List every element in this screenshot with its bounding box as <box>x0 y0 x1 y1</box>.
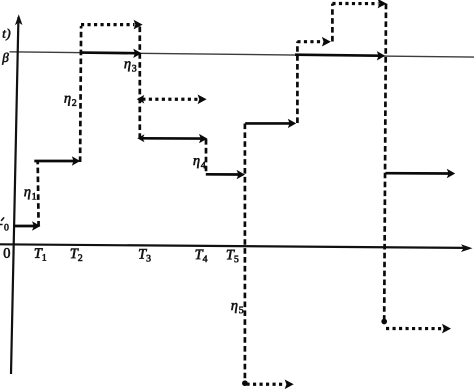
solid segment S3 reflected at beta <box>81 51 135 54</box>
y-axis arrowhead <box>15 14 23 25</box>
solid segment S4 after T3 (double headed) <box>137 134 144 142</box>
label eta3 <box>124 61 136 71</box>
dashed upward jump eta2 at T2 <box>80 26 81 162</box>
label T2 <box>71 249 82 261</box>
dashed downward jump eta4 at T4 <box>205 139 208 174</box>
solid segment S6 after T5 <box>245 122 290 125</box>
x-axis arrowhead <box>461 244 473 252</box>
dotted free path after ruin at T5 <box>247 383 286 386</box>
dotted free path top right after T7 <box>332 2 378 5</box>
beta barrier horizontal line <box>10 52 474 57</box>
label T1 <box>35 248 46 260</box>
dashed downward jump eta3 at T3 <box>138 27 141 139</box>
label T4 <box>196 250 208 262</box>
solid segment S5 after T4 <box>206 173 239 176</box>
solid segment S8 after T8 <box>386 172 450 175</box>
label eta2 <box>64 96 76 106</box>
label T3 <box>139 249 151 261</box>
label eta5 <box>231 303 243 313</box>
y-axis <box>11 17 18 374</box>
dashed upward jump eta1 at T1 <box>36 161 40 227</box>
label 0 at origin <box>4 248 10 258</box>
dashed upward jump at T6 <box>296 42 299 124</box>
label beta <box>2 53 9 65</box>
dotted free path after T3 (double headed) <box>137 95 145 104</box>
label x0 subscript 0 (cropped label) <box>4 224 8 231</box>
dotted free path above beta after T6 <box>297 40 323 43</box>
label eta1 <box>24 189 36 199</box>
label T5 <box>227 250 239 262</box>
dashed jump eta5 at T5 down to ruin level <box>244 124 247 382</box>
dashed upward jump at T7 <box>331 4 334 42</box>
ruin dot of free path below axis at T8 <box>381 319 387 325</box>
dotted free path after ruin at T8 <box>386 327 443 330</box>
dotted free path above beta after T2 <box>81 23 135 26</box>
solid segment S1 at initial level x0 <box>14 225 34 228</box>
ruin dot of free path below axis at T5 <box>242 380 248 386</box>
dashed big downward jump at T8 <box>384 4 386 320</box>
solid segment S7 reflected at beta (right) <box>295 55 379 56</box>
x-axis <box>0 244 464 248</box>
label t) on y-axis <box>3 29 10 41</box>
label eta4 <box>193 158 205 168</box>
label x0 partial letter strokes at left edge <box>1 217 4 221</box>
solid segment S2 after T1 <box>34 160 74 163</box>
